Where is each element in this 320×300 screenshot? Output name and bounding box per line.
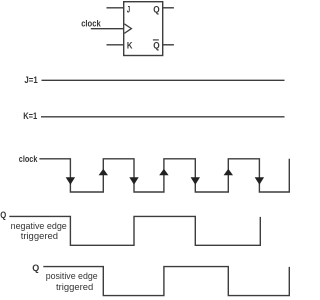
pin label Qbar [153, 40, 160, 52]
svg-text:Q: Q [0, 210, 6, 221]
wire J input [107, 7, 124, 9]
svg-text:positive edge: positive edge [46, 271, 98, 282]
arrow falling edge 4 [255, 177, 264, 185]
flip-flop U1 box [124, 2, 163, 56]
wire Q output [163, 7, 174, 9]
wire Q positive-edge waveform [43, 267, 289, 296]
wire clock waveform [39, 159, 289, 192]
svg-text:Q: Q [153, 5, 159, 16]
svg-text:triggered: triggered [56, 282, 93, 293]
arrow falling edge 1 [66, 177, 75, 185]
svg-text:Q: Q [32, 263, 39, 274]
svg-text:Q: Q [153, 41, 159, 52]
wire K input [107, 44, 124, 46]
arrow falling edge 2 [129, 177, 138, 185]
arrow falling edge 3 [191, 177, 200, 185]
svg-text:J: J [127, 4, 130, 15]
svg-text:clock: clock [19, 154, 38, 165]
svg-text:K=1: K=1 [23, 111, 38, 122]
clock edge-trigger triangle [124, 24, 131, 33]
wire J=1 level line [42, 79, 285, 81]
svg-text:triggered: triggered [21, 231, 58, 242]
arrow rising edge 3 [224, 169, 233, 176]
wire Qbar output [163, 44, 174, 46]
wire clock input [91, 28, 124, 30]
svg-text:J=1: J=1 [24, 75, 38, 86]
svg-text:clock: clock [81, 19, 101, 30]
arrow rising edge 1 [99, 169, 108, 176]
wire Q negative-edge waveform [9, 216, 260, 245]
arrow rising edge 2 [159, 169, 168, 176]
wire K=1 level line [41, 116, 285, 118]
svg-text:K: K [127, 40, 133, 51]
